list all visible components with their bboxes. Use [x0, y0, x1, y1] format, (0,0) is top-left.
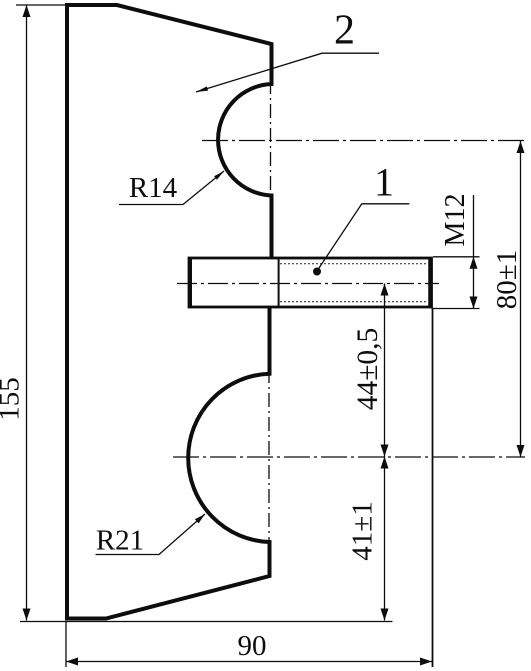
- arrow 80 top: [517, 141, 525, 153]
- svg-text:1: 1: [374, 160, 394, 205]
- svg-text:2: 2: [334, 8, 355, 54]
- svg-text:90: 90: [238, 630, 267, 662]
- bolt centerline: [177, 283, 439, 285]
- dimension line 155: [26, 5, 28, 621]
- svg-text:80±1: 80±1: [491, 250, 523, 309]
- arrow M12 bottom: [470, 297, 478, 309]
- leader for part label 1: [317, 204, 409, 271]
- svg-text:M12: M12: [440, 194, 471, 247]
- vertical centerline across notch R21: [268, 369, 270, 546]
- arrow 44 bottom: [381, 445, 389, 457]
- extension line right for 90 (from bolt end): [432, 308, 434, 667]
- horizontal centerline of notch R14: [202, 140, 525, 142]
- bolt body (part 1): [189, 258, 432, 307]
- bolt thread minor line top: [280, 263, 427, 265]
- bolt thread start line: [278, 258, 280, 307]
- arrow 44 top: [381, 284, 389, 296]
- arrow leader 2: [196, 86, 208, 92]
- arrow R14 leader: [214, 171, 224, 180]
- leader for part label 2: [196, 53, 379, 92]
- arrow M12 top: [470, 257, 478, 269]
- svg-text:155: 155: [0, 377, 26, 421]
- vertical centerline across notch R14: [270, 80, 272, 199]
- bolt left end cap: [188, 258, 192, 307]
- horizontal centerline of notch R21: [173, 456, 525, 458]
- dimension line 80±1: [520, 141, 522, 457]
- svg-text:R14: R14: [129, 172, 178, 204]
- plate body outline (part 2): [67, 5, 272, 619]
- extension line top for 155: [16, 4, 66, 6]
- arrow 155 bottom: [23, 609, 31, 621]
- arrow 90 left: [66, 658, 78, 666]
- dimension line M12: [473, 195, 475, 309]
- arrow 41 top: [381, 457, 389, 469]
- bolt end chamfer line: [428, 259, 432, 307]
- arrow 155 top: [23, 5, 31, 17]
- dimension line 44±0,5: [384, 284, 386, 457]
- arrow R21 leader: [195, 514, 205, 523]
- leader R21: [96, 514, 206, 555]
- extension line left for 90: [65, 622, 67, 668]
- dot leader 1: [313, 268, 321, 276]
- extension line M12 top: [433, 256, 480, 258]
- svg-text:41±1: 41±1: [347, 501, 379, 560]
- bolt thread minor line bottom: [280, 301, 427, 303]
- dimension line 90: [66, 661, 432, 663]
- arrow 41 bottom: [381, 609, 389, 621]
- leader R14: [119, 171, 224, 205]
- svg-text:44±0,5: 44±0,5: [352, 328, 384, 411]
- svg-text:R21: R21: [96, 525, 144, 557]
- arrow 80 bottom: [517, 445, 525, 457]
- extension line M12 bottom: [433, 308, 480, 310]
- arrow 90 right: [420, 658, 432, 666]
- extension line bottom for 155 and 41: [20, 621, 393, 623]
- dimension line 41±1: [384, 457, 386, 621]
